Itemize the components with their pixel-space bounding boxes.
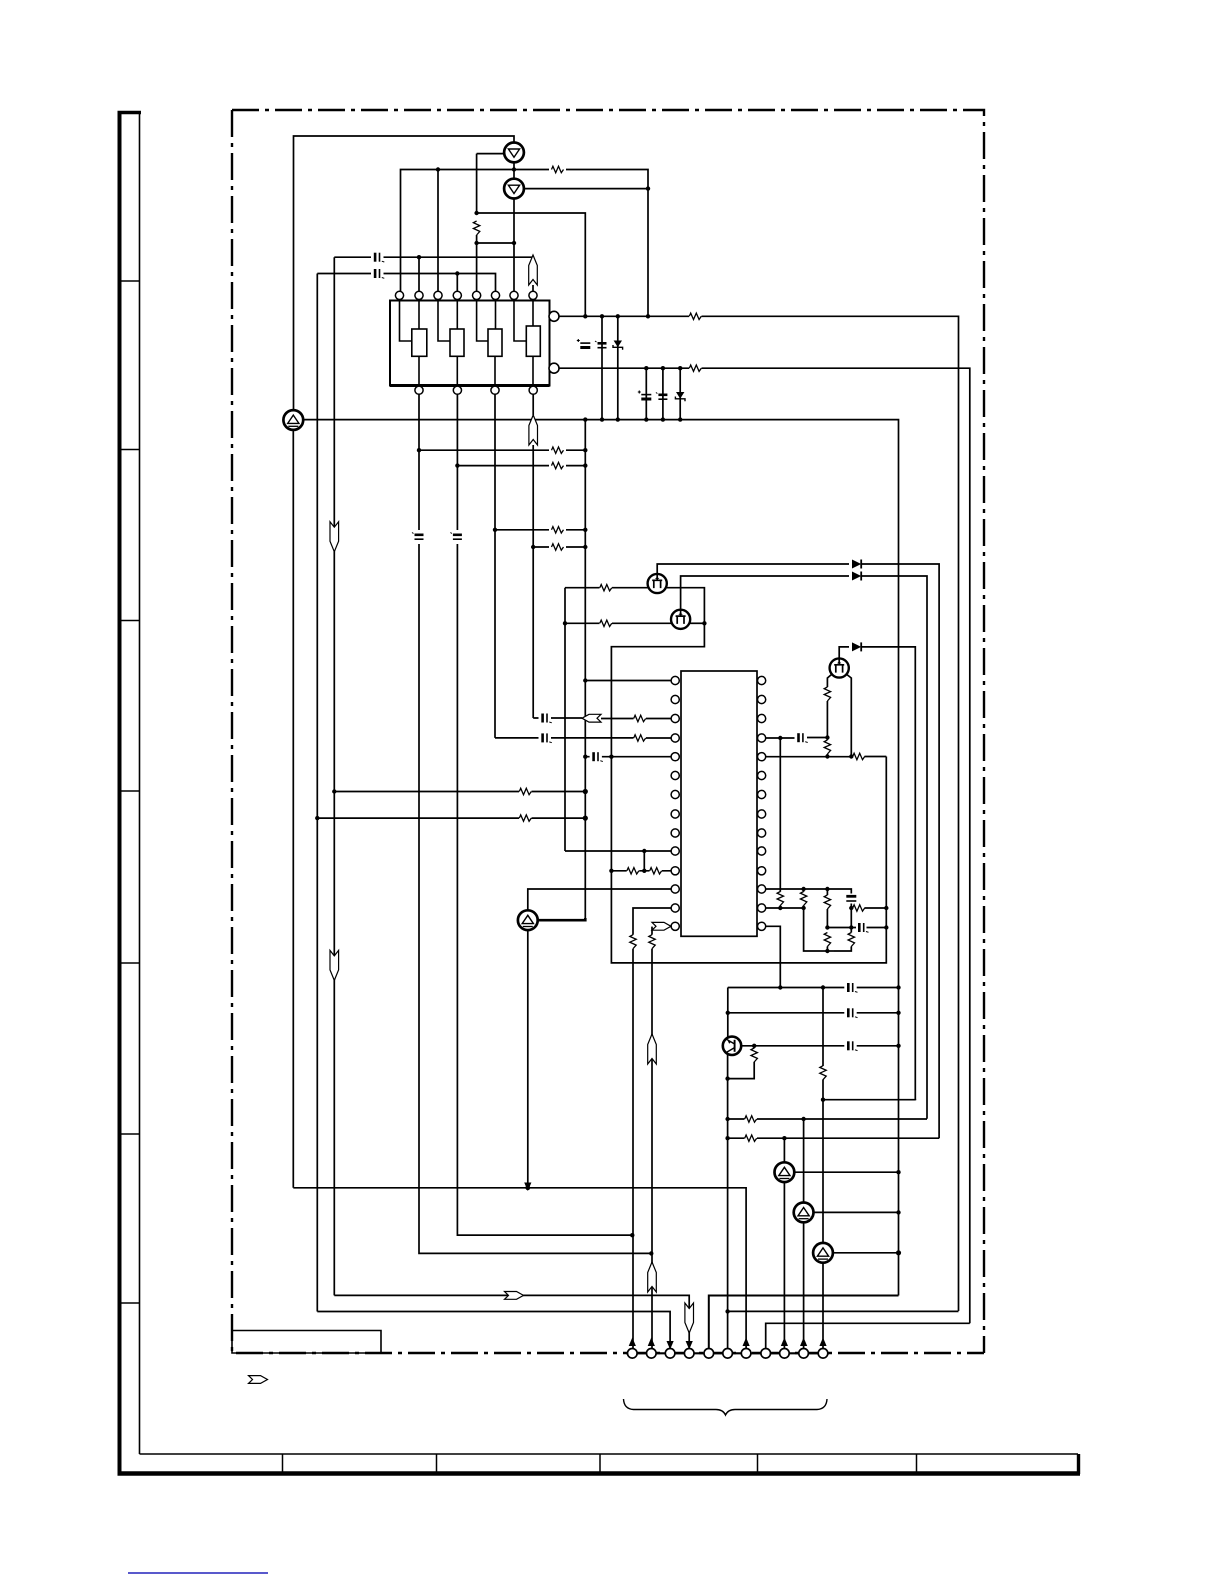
capacitor C16 on y1012.8 [848, 1008, 857, 1017]
wire: resistor row y547 [533, 546, 585, 548]
wire: S2 down to transformer pin T7 [513, 199, 515, 292]
wire: x652 vertical to connector c2 [651, 949, 653, 1349]
resistor R6 row y465.6 [552, 462, 564, 468]
transformer T1 body [390, 301, 550, 386]
capacitor C7 series on B1 bus [412, 533, 424, 540]
capacitor C10 on L4 net [543, 733, 552, 742]
wire: CT2 right lead [814, 1211, 899, 1213]
dots R13 net [778, 906, 782, 910]
wire: IC pin L5 net with series cap [585, 756, 671, 758]
dots row y818.1 [315, 816, 319, 820]
capacitor C5 electrolytic bank2 [638, 391, 652, 400]
wire: c7 feed row y1187.8 from left bus [293, 1188, 746, 1349]
wire: B2 vertical bus [457, 394, 632, 1235]
wire: x803 branch R12-R13-bottom [804, 889, 820, 951]
wire: Q1 drain to diode row y564 [657, 564, 849, 574]
wire: row y818.1 bus x317 to x585 [317, 817, 585, 819]
dots L11 net [609, 869, 613, 873]
wire: solid border segment under connector row [626, 1352, 829, 1354]
transformer winding W3 [488, 329, 502, 356]
capacitor C9 on L3 net [543, 714, 552, 723]
dot CT1 lead x898.5 [896, 1170, 900, 1174]
blue underline bottom-left [128, 1572, 268, 1574]
capacitor bank1 vertical leads [602, 316, 618, 419]
junction dot L10/x644 [642, 849, 646, 853]
resistor R4 on RP2 row [689, 365, 701, 371]
resistor R19 on x633 [630, 935, 636, 949]
junction dot L1 [583, 678, 587, 682]
solid arrow up at c2 [648, 1338, 655, 1347]
IC U1 right pins 15-28 [758, 676, 766, 684]
wire: Q3 drain to diode row y646.9 [839, 647, 849, 659]
capacitor C8 series on B2 bus [450, 533, 462, 540]
dots x727.6 [725, 1076, 729, 1080]
wire: x851 branch cap to bottom [834, 892, 851, 952]
wire: IC pin L12 net to CT4 [528, 889, 671, 910]
wire: IC pin L4 net [495, 737, 671, 739]
wire: cap row2 y273.5 [317, 274, 495, 292]
wire: x754 resistor loop to x727 [728, 1046, 755, 1079]
transistor Q1 (FET) [648, 574, 667, 593]
transformer internal wiring [400, 300, 534, 386]
arrow down hollow on c4 drop [685, 1303, 694, 1333]
wire: row y169.5 with branch corners [401, 170, 649, 317]
wire: x823 vertical to connector c11 [822, 1243, 824, 1348]
wire: c6 feed row y1311.4 to x958.5 [728, 1310, 959, 1312]
wire: Q2 right lead [690, 622, 704, 624]
connector CT0 (circled triangle up) on left bus [283, 410, 303, 430]
zener diode D2 bank2 [675, 392, 685, 401]
dot x780 y987.5 [778, 985, 782, 989]
resistor R17 on L11 net [627, 868, 639, 874]
dot CT2 lead x898.5 [896, 1210, 900, 1214]
wire: B1 vertical bus [419, 394, 651, 1253]
wire: B3 vertical bus to IC pin L4 row [494, 394, 496, 738]
connector CT2 (circled triangle up) [794, 1203, 814, 1223]
transformer right pin RP2 [549, 363, 559, 373]
junction dot x648 y188.6 [646, 186, 650, 190]
capacitor C13 on x851 [846, 895, 856, 898]
transformer winding W4 [526, 326, 540, 356]
resistor R23 on x803 [800, 892, 806, 906]
wire: c3 feed row y1311.5 [317, 1312, 670, 1349]
wire: y908 segment right with resistor [851, 907, 886, 909]
wire: main bus y419.6 [303, 420, 898, 1296]
wire: RP1 row y316.3 to right [559, 316, 959, 1311]
wire: diode D4 to x927 vertical [861, 576, 927, 1119]
wire: S1 to S2 vertical [513, 162, 515, 178]
dots y908 segment [849, 906, 853, 910]
dots row y450.2 [417, 448, 421, 452]
wire: top line from left bus to S1 [294, 136, 515, 420]
wire: c2 feed row y1253.4 [649, 1251, 653, 1255]
title cell box on border bottom-left [232, 1331, 381, 1354]
wire: T2 vertical [418, 257, 420, 291]
junction dots on bus y419.6 [583, 417, 587, 421]
wire: row y1119 resistor to x927 [728, 1118, 927, 1120]
wire: cap row y987.5 [728, 988, 899, 1013]
page frame: bottom title band top line [140, 1453, 1079, 1455]
solid arrow down at c4 [686, 1341, 693, 1350]
wire: Q3 right leg [847, 675, 852, 757]
dash-dot chassis border box [232, 110, 984, 1353]
wire: x803.6 vertical to connector c10 [803, 1119, 805, 1348]
wire: cap row y1012.8 [728, 1012, 899, 1014]
solid arrow up at c1 [629, 1338, 636, 1347]
dot x823 y1099.7 [821, 1098, 825, 1102]
arrow down on bus x334 upper [330, 522, 339, 552]
wire: IC pin L1 to x585 [585, 680, 671, 682]
capacitor C2 on row2 [375, 269, 384, 278]
wire: IC pin L14 arrow [652, 922, 671, 930]
wire: c5 riser and feed to x898.5 [709, 1296, 899, 1349]
dot c1 feed [630, 1233, 634, 1237]
page frame: left ruler inner line [139, 112, 141, 1454]
wire: T5 chain with resistor R2 [477, 154, 505, 215]
solid arrow up at c9 [781, 1338, 788, 1347]
resistor R20 on x652 [649, 935, 655, 949]
transformer T1 bottom edge thick [390, 384, 550, 387]
junction dots RP1 row [583, 314, 587, 318]
wire: T3 vertical [437, 170, 439, 292]
transistor Q2 (FET) [671, 610, 690, 629]
page frame: bottom title band right cap [1077, 1454, 1080, 1474]
dot row y1138.2 x784.4 [782, 1136, 786, 1140]
resistor R13 on L3 net [634, 715, 646, 721]
wire: x780 vertical R4 to R13 with resistor [779, 738, 781, 908]
wire: CT1 right lead [794, 1171, 898, 1173]
resistor R7 row y529.8 [552, 527, 564, 533]
capacitor bank2 vertical leads [646, 368, 680, 419]
resistor R31 on row y1138.2 [745, 1135, 757, 1141]
resistor R30 on row y1119 [745, 1116, 757, 1122]
resistor R29 on x823 [820, 1066, 826, 1080]
wire: x633 vertical to connector c1 [632, 949, 634, 1349]
arrow up on x652 at y1049 [648, 1034, 657, 1064]
transformer bottom pin circles B1-B4 [415, 386, 423, 394]
dot CT3 lead x898.5 [896, 1250, 901, 1255]
wire: bottom rail y951 [820, 950, 834, 952]
dot CT4 lead junction [525, 1185, 530, 1190]
resistor R12 Q3 left lower [824, 740, 830, 754]
wire: row y1099.7 to x915 [823, 1099, 915, 1102]
wire: IC pin R5 net [766, 756, 887, 758]
solid arrow down CT4 lead to row1188 [524, 1183, 531, 1192]
arrow right on c4 feed [505, 1292, 524, 1300]
wire: x585 main vertical [584, 420, 586, 921]
wire: IC pin R13 net [766, 907, 804, 909]
wire: B4 below arrow [532, 445, 534, 718]
arrow up on B4 below bus [529, 415, 538, 445]
transformer winding W2 [450, 329, 464, 356]
capacitor C4 bank1 [595, 341, 607, 348]
wire: x727.8 into Q4 [727, 1013, 729, 1038]
wire: row y213 to x585 [477, 213, 586, 316]
wire: CT4 right lead to x585 [538, 918, 586, 920]
wire: Q4 emitter vertical x727.6 down [727, 1053, 729, 1348]
dots row y547 [531, 545, 535, 549]
arrow left on L3 net [582, 714, 601, 722]
junction dots row y243 [474, 241, 478, 245]
wire: Q2 gate row y623.3 [565, 622, 671, 624]
junction dot Q2 gate row [563, 621, 567, 625]
wire: Q2 drain to diode row y576 [681, 576, 849, 610]
arrow up on T8 line [529, 255, 538, 285]
wire: Q4 row y1045.8 with cap [741, 1045, 898, 1047]
connector S1 (circled triangle down) [504, 143, 524, 163]
solid arrow up at c7 [743, 1338, 750, 1347]
page frame: left ruler tick marks [118, 281, 140, 1303]
wire: IC pin R4 net [766, 737, 828, 740]
wire: RP2 row y368.2 to right [559, 368, 970, 1323]
resistor R28 on x754 [751, 1048, 757, 1062]
dot row y1119 x803.6 [801, 1117, 805, 1121]
page frame: left ruler top cap [118, 111, 142, 114]
wire: L14 corner down [651, 927, 653, 935]
wire: row y1138.2 resistor to x939 [728, 1137, 940, 1139]
dots row y791.5 [332, 789, 336, 793]
wire: x644 link L10 to L11 [643, 851, 645, 871]
wire: x784.4 vertical to connector c9 [783, 1138, 785, 1348]
page frame: bottom title band cell dividers [283, 1454, 917, 1473]
resistor R16 row y818.1 [519, 815, 531, 821]
IC U1 left pins 1-14 [671, 676, 679, 684]
wire: CT3 right lead [833, 1252, 899, 1254]
wire: IC pin L11 net with two resistors [611, 870, 671, 872]
wire: x827 branch R12 to bottom [826, 889, 828, 951]
wire: IC pin L3 net [533, 717, 671, 720]
wire: IC pin R12 net [766, 889, 852, 892]
dots R12 net [801, 887, 805, 891]
transformer winding W1 [412, 329, 427, 356]
resistor R24 on x827 upper [824, 895, 830, 909]
resistor R18 on L11 net [650, 868, 662, 874]
solid arrow up at c10 [800, 1338, 807, 1347]
IC U1 body [681, 671, 757, 936]
junction dot Q2 output [702, 621, 706, 625]
resistor R26 on x851 lower [848, 933, 854, 947]
arrow symbol below border [249, 1376, 268, 1384]
brace under connector row [624, 1399, 828, 1415]
resistor R27 on y908 segment [853, 905, 865, 911]
wire: T8 below arrow [532, 285, 534, 291]
diode D4 row y576 [852, 572, 861, 581]
capacitor C15 on y987.5 [848, 983, 857, 992]
dots y927.5 segment [825, 925, 829, 929]
solid arrow down at c3 [667, 1341, 674, 1350]
capacitor C12 on R4 net [799, 733, 808, 742]
connector S2 (circled triangle down) [504, 179, 524, 199]
resistor R1 on row y169.5 [552, 166, 564, 172]
resistor R9 Q1 gate [600, 585, 612, 591]
wire: c1 feed row y1235.2 [457, 1234, 632, 1236]
wire: row y791.5 bus x334 to x585 [334, 791, 585, 793]
wire: resistor row y529.8 [495, 529, 585, 531]
wire: IC pin L13 net corner down [633, 908, 671, 935]
capacitor C6 bank2 [656, 393, 668, 400]
resistor R5 row y450.2 [552, 447, 564, 453]
transformer right pin RP1 [549, 311, 559, 321]
wire: y927.5 segment with cap [827, 927, 886, 929]
resistor R22 on R5 net [853, 753, 865, 759]
resistor R8 row y547 [552, 544, 564, 550]
dots R4 net [778, 736, 782, 740]
page frame: left ruler bar [118, 112, 122, 1474]
capacitor C1 on row1 [375, 253, 384, 262]
wire: B4 vertical bus to IC pin L3 row [532, 394, 534, 415]
junction dots RP2 row [644, 366, 648, 370]
wire: IC pin R14 to corner x780 down [766, 926, 781, 987]
dot rail y951 [825, 949, 829, 953]
wire: left bus x317 [316, 274, 318, 1312]
transistor Q4 (BJT) [723, 1037, 741, 1055]
dots y987.5 [821, 985, 825, 989]
wire: Q3 left leg with resistors [827, 675, 831, 757]
dots y1045.8 [752, 1044, 756, 1048]
arrow down on bus x334 lower [330, 950, 339, 980]
wire: left bus x334 [333, 257, 335, 1295]
wire: CT4 bottom lead [527, 930, 529, 1184]
resistor R25 on x827 lower [824, 933, 830, 947]
wire: T4 vertical [456, 274, 458, 292]
wire: S2 output to x648 [524, 188, 648, 190]
capacitor C3 electrolytic bank1 [577, 339, 591, 348]
wire: T5 chain below resistor [476, 235, 478, 291]
junction dot y213 [474, 211, 478, 215]
transistor Q3 (FET) [830, 658, 849, 677]
connector CT3 (circled triangle up) [813, 1243, 833, 1263]
wire: cap row1 y257.2 [334, 257, 533, 262]
connector CT4 (circled triangle up) [518, 910, 538, 930]
wire: left bus x293 below CT0 [292, 430, 294, 1188]
resistor R3 on RP1 row [689, 313, 701, 319]
diode D3 row y564 [852, 560, 861, 569]
connector CT1 (circled triangle up) [775, 1162, 795, 1182]
resistor R14 on L4 net [634, 735, 646, 741]
diode D5 row y646.9 [852, 642, 861, 651]
wire: Q1 gate row y587.7 [565, 588, 650, 851]
junction dot T2 top [417, 255, 421, 259]
transformer top pin circles T1-T8 [395, 291, 403, 299]
wire: IC pin L10 net [565, 850, 671, 852]
wire: resistor row y465.6 [457, 465, 585, 467]
junction dots L5 net [583, 755, 587, 759]
dots row y529.8 [493, 528, 497, 532]
wire: resistor row y450.2 [419, 449, 585, 451]
resistor R21 on x780 [777, 892, 783, 906]
wire: row y243 [477, 242, 514, 244]
wire: diode D3 to x939 vertical [861, 564, 939, 1138]
dots row y465.6 [455, 463, 459, 467]
capacitor C17 on y1045.8 [848, 1041, 857, 1050]
connector row circles c1-c11 [628, 1349, 638, 1359]
resistor R10 Q2 gate [600, 620, 612, 626]
wire: diode D5 to x915 vertical [861, 647, 915, 1100]
resistor R15 row y791.5 [519, 788, 531, 794]
dots y1012.8 [726, 1011, 730, 1015]
page frame: bottom title band thick base [118, 1471, 1081, 1476]
capacitor C14 on y927.5 [859, 923, 868, 932]
resistor R2 vertical on T5 chain [473, 221, 479, 235]
junction dot T4 top [455, 271, 459, 275]
resistor R11 Q3 left upper [824, 687, 830, 701]
arrow up on x652 at y1277 [648, 1262, 657, 1292]
capacitor C11 on L5 net [594, 752, 603, 761]
junction dots row y169.5 [436, 167, 440, 171]
wire: c4 feed row y1295.4 with arrow [334, 1295, 689, 1348]
dots R5 net [825, 754, 829, 758]
solid arrow up at c11 [819, 1338, 826, 1347]
wire: Q1 output loop to Q2 row [611, 588, 886, 963]
zener diode D1 bank1 [613, 341, 623, 350]
wire: x823 vertical with resistor [822, 988, 824, 1244]
wire: c8 riser and feed to x969.8 [766, 1323, 970, 1348]
junction dot x648 y316.3 [646, 314, 650, 318]
